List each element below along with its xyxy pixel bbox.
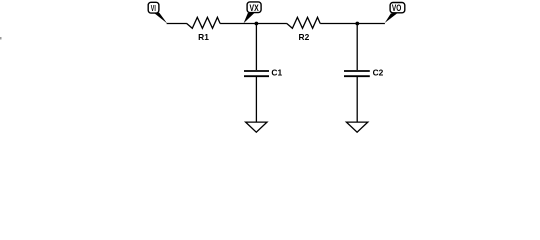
svg-text:R1: R1	[198, 32, 209, 42]
wire VI to R1	[167, 23, 187, 25]
wire C1 to ground	[255, 77, 257, 122]
wire C2 to ground	[356, 77, 358, 122]
edge artifact speck	[0, 37, 2, 40]
wire R1 to R2	[220, 23, 287, 25]
wire VX junction down to C1	[255, 24, 257, 71]
ground below C1	[246, 122, 267, 132]
node VI	[148, 2, 167, 23]
svg-text:C2: C2	[373, 67, 384, 77]
resistor R2	[287, 17, 320, 42]
ground below C2	[346, 122, 367, 132]
svg-text:VI: VI	[151, 3, 156, 13]
node VX	[244, 2, 262, 23]
resistor R1	[187, 17, 220, 42]
capacitor C2	[344, 67, 384, 77]
wire C2 junction down to C2	[356, 24, 358, 71]
svg-text:C1: C1	[271, 68, 282, 78]
junction at C2 tap	[355, 22, 359, 26]
svg-text:R2: R2	[299, 32, 310, 42]
svg-text:VO: VO	[392, 3, 402, 13]
svg-text:VX: VX	[250, 3, 259, 13]
node VO	[385, 3, 405, 23]
wire R2 to VO	[320, 23, 385, 25]
junction at VX node	[255, 22, 259, 26]
capacitor C1	[244, 68, 282, 78]
